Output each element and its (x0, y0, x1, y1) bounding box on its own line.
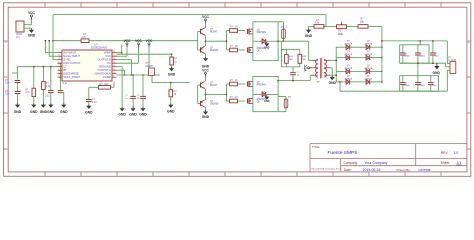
capacitor C16 2200u (402, 76, 404, 83)
wire midpoint top bridge (253, 40, 262, 42)
wire primary bottom pin (309, 75, 311, 80)
wire to R9 (227, 83, 230, 85)
wire R4 to ground (42, 90, 44, 105)
wire R6 to ground (170, 97, 172, 105)
wire row4 to return rail (339, 82, 341, 91)
ground under C4 (61, 105, 66, 108)
wire VCC pin (117, 55, 128, 57)
wire stub left RC row (12, 72, 18, 74)
svg-text:3.3n: 3.3n (5, 94, 10, 96)
wire R12 stub top (285, 49, 287, 54)
wire feedback top rail (53, 14, 326, 16)
U1 pin 8 SOFT_START (58, 76, 63, 78)
wire diode row y71.5 input (336, 71, 346, 73)
resistor R6 1k (169, 90, 173, 97)
svg-text:1N5819: 1N5819 (344, 78, 352, 80)
wire R3 to ground (33, 97, 35, 105)
connector P2 body (149, 68, 155, 76)
svg-text:VCC: VCC (146, 39, 153, 43)
wire secondary center tap (330, 67, 332, 69)
svg-text:OUTPUT B: OUTPUT B (97, 58, 111, 62)
transistor Q5 IRFZ44N (247, 29, 249, 34)
wire OUTPUT A down (117, 69, 125, 71)
wire Q3 collector to VCC (205, 77, 207, 82)
svg-text:1N5819: 1N5819 (344, 68, 352, 70)
wire base stubs driver2 (198, 84, 201, 86)
svg-text:A: A (5, 41, 7, 45)
wire snubber feed from midpoint rail (280, 41, 282, 49)
wire diode row y47.2 input (336, 46, 346, 48)
wire bank2 feed (417, 63, 419, 75)
wire cap bank 1 box (400, 45, 429, 63)
svg-text:REV:: REV: (441, 151, 449, 155)
transistor Q2 2N2906 (200, 47, 202, 52)
potentiometer RV1 100k (337, 25, 347, 29)
node junction at R5 (171, 53, 173, 55)
diode D6 1N5819 (366, 69, 370, 74)
U1 pin 14 OUTPUT B (112, 59, 117, 61)
svg-text:2200u: 2200u (419, 85, 426, 87)
wire mid bottom rail (117, 74, 161, 76)
U1 pin 9 COMP (112, 76, 117, 78)
wire feedback top rail drop right (325, 15, 327, 27)
wire midpoint to primary top adjust (309, 59, 312, 61)
wire to R7 (227, 30, 230, 32)
wire to R8 (227, 49, 230, 51)
resistor R8 10 (230, 48, 238, 52)
diode D5 1N5819 (346, 69, 350, 74)
wire driver2 output (206, 93, 227, 95)
ground column 1 (120, 108, 125, 111)
wire bus to C5 (58, 62, 61, 64)
node feedback drop junction (323, 26, 325, 28)
wire R7 to Q5 gate (238, 30, 246, 32)
ground at D10 (264, 97, 269, 100)
wire C6 to ground (132, 98, 134, 108)
transistor Q3 BC547 (200, 82, 202, 87)
diode D10 between midpoints (262, 92, 266, 97)
capacitor C6 1u (130, 95, 136, 97)
wire to fuse F2 (278, 96, 286, 98)
wire R10 to Q8 gate (238, 100, 246, 102)
diode D1 1N5819 (346, 45, 350, 50)
transformer T1 (316, 60, 318, 64)
wire R13 stub top (299, 49, 301, 54)
wire output rail to P3 pin1 (446, 41, 448, 64)
capacitor C2 3.3n (15, 91, 21, 93)
node bottom midpoint junction (277, 80, 279, 82)
U1 pin 7 DISCHARGE (58, 73, 63, 75)
wire driver1 base column (197, 32, 199, 51)
svg-text:GND: GND (329, 81, 337, 85)
wire midpoint bottom bridge (253, 93, 262, 95)
svg-text:0.1u: 0.1u (92, 102, 97, 104)
wire C4 to ground (61, 92, 64, 94)
svg-text:1.0: 1.0 (454, 151, 459, 155)
wire diode row y57.6 middle (350, 57, 367, 59)
ground under R3 (31, 105, 36, 108)
wire timing resistor to cap branch (89, 86, 99, 88)
U1 pin 10 /SHUTDOWN (112, 73, 117, 75)
svg-text:Drawn By:: Drawn By: (397, 168, 411, 172)
ground at transformer center tap (330, 77, 335, 80)
wire diode input bus (335, 47, 337, 82)
wire gate split bottom (226, 84, 228, 101)
resistor R3 4.7k (32, 88, 36, 96)
wire diode row y57.6 output (370, 57, 382, 59)
resistor R12 560 (285, 54, 289, 63)
U1 pin 11 OUTPUT A (112, 69, 117, 71)
svg-text:1N5819: 1N5819 (364, 54, 372, 56)
svg-text:On/Off: On/Off (146, 65, 153, 68)
svg-text:VCC: VCC (105, 54, 111, 58)
wire secondary bottom to diode bus (330, 74, 336, 76)
wire F2 bottom (285, 108, 287, 112)
svg-text:COMP: COMP (103, 75, 111, 79)
sheet border inner frame (8, 7, 467, 172)
svg-text:2019-05-15: 2019-05-15 (363, 168, 381, 172)
ground under C2 (15, 105, 20, 108)
svg-text:4.7k: 4.7k (314, 22, 319, 25)
capacitor C17b 2200u (417, 76, 419, 83)
capacitor C7 1u (140, 95, 146, 97)
wire C8 to ground (88, 102, 90, 106)
svg-text:Company:: Company: (344, 161, 359, 165)
wire P1 pin1 to VCC (24, 24, 32, 26)
wire cap column 2 (132, 75, 134, 96)
ground under Q4 (203, 112, 208, 115)
fuse F2 (284, 99, 288, 108)
svg-text:A: A (468, 41, 470, 45)
svg-text:GROUND: GROUND (99, 65, 111, 69)
ground at R11 (306, 30, 311, 33)
wire to IC pin2 Noninv (48, 41, 50, 57)
ground under R4 (41, 105, 46, 108)
wire column D drop (50, 67, 52, 91)
wire VC pin (117, 62, 139, 64)
wire top bridge box (253, 22, 278, 61)
wire diode row y47.2 middle (350, 46, 367, 48)
ground under R6 (168, 105, 173, 108)
svg-text:4.7k: 4.7k (81, 36, 86, 39)
resistor R4 4.7k (42, 81, 46, 89)
svg-text:IRFZ44N: IRFZ44N (257, 32, 267, 34)
wire mid rail to lower driver feed (151, 75, 153, 83)
svg-text:2200u: 2200u (419, 56, 426, 58)
wire driver2 base column (197, 85, 199, 104)
node junctions mid rail (132, 74, 134, 76)
ground under Q2 (203, 58, 208, 61)
U1 pin 13 VC (112, 62, 117, 64)
wire driver1 output (206, 40, 227, 42)
U1 pin 16 VREF (112, 52, 117, 54)
U1 pin 1 INV INPUT (58, 52, 63, 54)
svg-text:2200u: 2200u (404, 56, 411, 58)
node junctions on RC bus (33, 66, 35, 68)
node emitter junction driver2 (205, 94, 207, 96)
svg-text:VCC: VCC (28, 11, 35, 15)
ground under R5 (169, 68, 174, 71)
svg-text:GND: GND (60, 110, 68, 114)
wire Q2 collector to ground (205, 54, 207, 59)
svg-text:/SHUTDOWN: /SHUTDOWN (95, 72, 111, 76)
capacitor C8 0.1u (86, 99, 92, 101)
U1 pin 3 SYNC (58, 59, 63, 61)
svg-text:100k: 100k (338, 33, 344, 36)
wire to C17 (292, 67, 294, 72)
svg-text:BC547: BC547 (210, 84, 218, 87)
resistor R10 10 (230, 99, 238, 103)
svg-text:OSC OUTPUT: OSC OUTPUT (63, 61, 81, 65)
wire P1 pin2 to GND (24, 27, 32, 29)
capacitor C15 0.1u (432, 41, 434, 53)
svg-text:GND: GND (30, 110, 38, 114)
wire snubber bottom rail (285, 63, 287, 67)
wire column A drop (17, 67, 19, 80)
svg-text:CT: CT (63, 65, 67, 69)
U1 pin 15 VCC (112, 55, 117, 57)
wire cap column 3 (142, 75, 144, 96)
svg-text:P?: P? (16, 35, 20, 39)
svg-text:2200u: 2200u (404, 85, 411, 87)
wire Q4 collector to ground (205, 107, 207, 111)
svg-text:TITLE:: TITLE: (312, 145, 320, 149)
svg-text:GND: GND (202, 115, 210, 119)
ground under C3 (48, 105, 53, 108)
svg-text:VCC: VCC (303, 64, 307, 71)
svg-text:2N2906: 2N2906 (210, 49, 219, 52)
wire diode row y71.5 output (370, 71, 382, 73)
wire emitters join driver2 (205, 89, 207, 100)
svg-text:OUTPUT A: OUTPUT A (98, 68, 111, 72)
svg-text:V_OUT: V_OUT (448, 59, 457, 62)
wire diode row y81.9 middle (350, 81, 367, 83)
capacitor C17 1u (290, 72, 296, 74)
connector P1 body (16, 21, 24, 32)
svg-text:VC: VC (107, 61, 111, 65)
ground under C7 (140, 108, 145, 111)
wire bottom midpoint to transformer primary bottom (278, 80, 310, 82)
wire output gnd rail (400, 62, 446, 64)
border tick marks (44, 3, 46, 7)
wire midpoint to transformer primary top (278, 40, 309, 42)
resistor R14 10k (358, 25, 368, 29)
wire R8 to Q6 gate (238, 49, 246, 51)
svg-text:VCC: VCC (202, 68, 209, 72)
U1 pin 12 GROUND (112, 66, 117, 68)
resistor R2 4.7k in drive rail (81, 39, 89, 43)
svg-text:1N5819: 1N5819 (364, 44, 372, 46)
diode D4 1N5819 (366, 55, 370, 60)
svg-text:RT: RT (63, 68, 67, 72)
capacitor C3 0.1u (48, 90, 54, 92)
wire C3 to ground (50, 93, 52, 105)
resistor R15 820 (99, 86, 111, 90)
wire COMP drop to timing resistor (113, 82, 115, 88)
wire GROUND pin to gnd column (117, 66, 123, 68)
wire VREF junction up (121, 45, 123, 53)
svg-text:0.1u: 0.1u (63, 83, 68, 85)
diode D3 1N5819 (346, 55, 350, 60)
wire rectifier output bus (381, 26, 383, 82)
svg-text:GND: GND (264, 100, 270, 103)
svg-text:GND: GND (167, 110, 175, 114)
wire VCC3 down to bottom rail (148, 47, 150, 75)
wire column B drop (33, 67, 35, 89)
wire diode row y57.6 input (336, 57, 346, 59)
diode D9 between midpoints (262, 39, 266, 44)
wire R11 gnd stub (308, 26, 310, 29)
power symbol VCC at primary center tap (310, 67, 312, 69)
wire R9 to Q7 gate (238, 83, 246, 85)
wire R14 to output bus (368, 25, 382, 27)
svg-text:Your Company: Your Company (365, 161, 388, 165)
transistor Q1 BC547 (200, 29, 202, 34)
wire column C drop (42, 67, 44, 82)
wire top rail to fuse F1 (278, 21, 283, 23)
capacitor C13 2200u (402, 45, 404, 53)
svg-text:2N2906: 2N2906 (210, 103, 219, 106)
title block outline (310, 143, 467, 145)
wire snubber left edge (280, 49, 282, 67)
transistor Q4 2N2906 (200, 101, 202, 106)
svg-text:GND: GND (129, 112, 137, 116)
wire pot link (324, 25, 337, 27)
wire gate split top (226, 31, 228, 51)
sheet border outer frame (4, 3, 471, 177)
wire C1 to C2 (17, 83, 19, 92)
wire bottom bridge box (253, 76, 278, 111)
ground under C6 (131, 108, 136, 111)
wire bus to RC network (18, 66, 58, 68)
svg-text:GND: GND (118, 112, 126, 116)
svg-text:1/1: 1/1 (457, 161, 462, 165)
transistor Q8 IRFZ44N (247, 99, 249, 104)
svg-text:Sheet:: Sheet: (441, 161, 450, 165)
diode D8 1N5819 (366, 80, 370, 85)
op-amp U1 SG3525ANG body (62, 50, 112, 81)
node junction on drive wire (52, 40, 54, 42)
wire VREF feed to R5 (117, 53, 172, 55)
wire bottom box to fuse F2 bottom (278, 111, 286, 113)
wire base stubs driver1 (198, 31, 201, 33)
wire drive rail right of R2 to driver base (89, 40, 198, 42)
wire F1 to primary rail (283, 39, 285, 42)
node junction at R6 (170, 82, 172, 84)
node emitter junction driver1 (205, 40, 207, 42)
wire bank1 feed (419, 41, 421, 45)
svg-text:Lexerial: Lexerial (419, 168, 431, 172)
wire emitters join driver1 (205, 35, 207, 46)
svg-text:VCC: VCC (124, 39, 131, 43)
diode D2 1N5819 (366, 45, 370, 50)
capacitor C4 0.1u (58, 90, 64, 92)
svg-text:3.3n: 3.3n (5, 83, 10, 85)
capacitor C18 0.1u (430, 76, 432, 83)
wire R6 top (170, 83, 172, 90)
svg-text:GND: GND (85, 111, 93, 115)
U1 pin 5 CT (58, 66, 63, 68)
wire gnd rail to P3 pin2 (445, 63, 447, 67)
svg-text:1N5819: 1N5819 (364, 68, 372, 70)
wire return rail to P3 pin3 (446, 70, 448, 91)
svg-text:0.1u: 0.1u (45, 96, 50, 98)
wire VREF pin to junction (117, 52, 122, 54)
wire diode row y81.9 output (370, 81, 382, 83)
wire C17 to primary rail (292, 75, 294, 80)
ground under C8 (86, 106, 91, 109)
connector P3 body (450, 62, 456, 74)
wire secondary top to diode bus (330, 59, 336, 61)
wire bottom return rail (340, 90, 447, 92)
wire C2 to ground (17, 94, 19, 105)
svg-text:SYNC: SYNC (63, 58, 70, 62)
wire R5 top (171, 54, 173, 57)
wire diode row y81.9 input (336, 81, 346, 83)
resistor R13 560 (298, 54, 302, 63)
wire R5 to ground (171, 65, 173, 68)
svg-text:IRFZ44N: IRFZ44N (257, 85, 267, 87)
wire C7 to ground (142, 98, 144, 108)
U1 pin 6 RT (58, 69, 63, 71)
svg-text:BC547: BC547 (210, 31, 218, 34)
capacitor C14 2200u (417, 45, 419, 53)
fuse F1 (282, 29, 286, 39)
svg-text:1N5819: 1N5819 (344, 44, 352, 46)
wire output positive rail (382, 40, 447, 42)
svg-text:GND: GND (433, 71, 441, 75)
svg-text:GND: GND (14, 110, 22, 114)
ground at P1 (29, 30, 34, 33)
wire left vertical from top rail (52, 15, 54, 60)
svg-text:SOFT_START: SOFT_START (63, 75, 80, 79)
svg-text:VCC: VCC (202, 15, 209, 19)
svg-text:1N5819: 1N5819 (344, 54, 352, 56)
U1 pin 2 Noninv INPUT (58, 55, 63, 57)
resistor R7 10 (230, 29, 238, 33)
wire cap bank 2 box (400, 76, 439, 92)
wire to IC pin1 INV (44, 41, 46, 53)
wire Q1 collector to VCC (205, 23, 207, 28)
svg-text:VCC: VCC (135, 39, 142, 43)
wire drive rail left of R2 (53, 40, 81, 42)
wire R11 left lead (309, 25, 315, 27)
svg-text:INV INPUT: INV INPUT (63, 51, 76, 55)
transistor Q6 IRFZ44N (247, 48, 249, 53)
svg-text:VREF: VREF (104, 51, 111, 55)
svg-text:GND: GND (168, 73, 176, 77)
wire cap branch drop (88, 87, 90, 99)
diode D7 1N5819 (346, 80, 350, 85)
svg-text:1N5819: 1N5819 (364, 78, 372, 80)
ground at output (436, 63, 438, 66)
ground at D9 (264, 43, 269, 46)
svg-text:Noninv INPUT: Noninv INPUT (63, 54, 80, 58)
wire pot to R14 (347, 25, 359, 27)
svg-text:GND: GND (28, 33, 36, 37)
wire snubber top rail (281, 48, 299, 50)
resistor R9 10 (230, 82, 238, 86)
svg-text:KiCad E.D.A. eeschema 4.0.7: KiCad E.D.A. eeschema 4.0.7 (312, 168, 342, 171)
svg-text:DISCHARGE: DISCHARGE (63, 72, 79, 76)
resistor R5 1k (170, 57, 174, 65)
wire diode row y47.2 output (370, 46, 382, 48)
wire diode row y71.5 middle (350, 71, 367, 73)
svg-text:GND: GND (139, 112, 147, 116)
svg-text:Fuente SMPS: Fuente SMPS (328, 150, 358, 156)
svg-text:SG3525ANG: SG3525ANG (91, 46, 107, 50)
wire OUTPUT B down (117, 59, 132, 61)
